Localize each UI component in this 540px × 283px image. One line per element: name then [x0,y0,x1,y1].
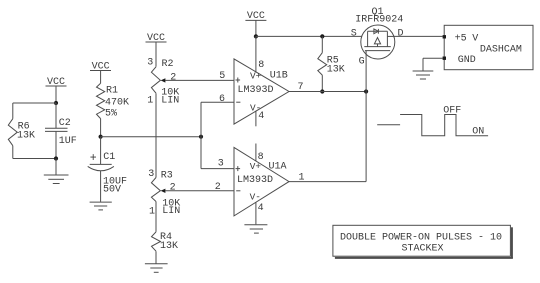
svg-text:D: D [398,28,404,39]
svg-text:V+: V+ [250,70,262,81]
ground at DASHCAM [413,71,434,79]
svg-text:+: + [90,152,97,165]
svg-text:U1B: U1B [270,70,288,81]
svg-text:2: 2 [170,72,176,83]
svg-text:LM393D: LM393D [238,85,274,96]
svg-text:1: 1 [149,206,155,217]
ground below U1A pin4 [244,225,267,233]
wire VCC rail to Q1 source [256,35,362,37]
resistor R5 [318,36,345,91]
svg-text:U1A: U1A [269,161,287,172]
ground below C1 [90,202,112,210]
power VCC net label (above U1B) [245,11,266,37]
svg-text:3: 3 [218,159,224,170]
svg-text:13K: 13K [327,65,345,76]
op-amp comparator U1B LM393D [219,36,304,126]
power VCC net label (above R1) [90,62,111,84]
svg-text:3: 3 [148,169,154,180]
wire rail to comparator inputs [101,136,201,138]
DASHCAM module box [443,25,533,69]
wire U1A output pin1 up to gate node [289,92,366,182]
svg-text:OFF: OFF [443,105,461,116]
svg-text:ON: ON [472,127,484,138]
svg-text:5%: 5% [105,108,117,119]
svg-text:V+: V+ [250,161,262,172]
transistor Q1 IRFR9024 (P-MOSFET) [351,7,404,67]
svg-text:+5: +5 [455,34,467,45]
svg-text:R2: R2 [162,59,174,70]
ground below C2 [44,159,69,184]
capacitor C2 [45,103,77,159]
svg-text:13K: 13K [160,241,178,252]
node R1/C1 [99,135,103,139]
svg-text:R1: R1 [106,86,118,97]
svg-text:IRFR9024: IRFR9024 [355,15,403,26]
svg-text:2: 2 [215,182,221,193]
wire [13,102,56,104]
svg-text:GND: GND [458,55,476,66]
node top of R6/C2 [54,101,58,105]
svg-text:2: 2 [170,182,176,193]
svg-text:3: 3 [147,58,153,69]
node rail junction [199,135,203,139]
wire [13,158,56,160]
svg-text:5: 5 [219,71,225,82]
node R5 top [320,34,324,38]
power VCC net label (left, above C2/R6) [46,77,67,103]
svg-text:LIN: LIN [162,206,180,217]
svg-text:50V: 50V [103,184,121,195]
wire R2 pin1 down through rail to R3 pin3 [155,93,157,177]
wire drain to DASHCAM [394,35,443,37]
svg-text:1: 1 [147,96,153,107]
wire wiper R3 to U1A pin2 [165,190,234,192]
resistor R6 [8,103,35,159]
potentiometer R2 10K LIN [147,58,179,107]
wire R3 pin1 to R4 [155,202,157,232]
wire gate of Q1 down to node [365,51,367,92]
wire U1B pin6 input [201,102,234,137]
wire U1A pin3 input from rail junction [201,137,234,169]
ground below R4 [145,264,168,273]
svg-text:STACKEX: STACKEX [401,243,443,254]
svg-text:G: G [359,56,365,67]
svg-text:1UF: 1UF [59,136,77,147]
svg-text:DOUBLE POWER-ON PULSES - 10: DOUBLE POWER-ON PULSES - 10 [340,233,502,244]
waveform annotation OFF/ON pulses [377,105,488,137]
power VCC net label (above R2) [146,33,167,67]
svg-text:LM393D: LM393D [237,175,273,186]
svg-text:S: S [351,28,357,39]
op-amp comparator U1A LM393D [215,144,305,225]
svg-text:C1: C1 [103,152,115,163]
node R5 bottom on gate line [320,89,324,93]
svg-text:DASHCAM: DASHCAM [480,44,522,55]
svg-text:4: 4 [258,111,264,122]
wire DASHCAM GND to ground [423,58,443,71]
wire U1B output pin7 to gate node [289,91,366,93]
resistor R4 [152,232,179,264]
svg-text:4: 4 [258,203,264,214]
capacitor C1 (polarized) [88,137,127,202]
node gate junction [364,89,368,93]
node VCC rail at U1B pin8 [254,34,258,38]
node bottom of R6/C2 [54,156,58,160]
svg-text:13K: 13K [17,130,35,141]
title box DOUBLE POWER-ON PULSES [333,225,513,258]
svg-text:LIN: LIN [161,96,179,107]
potentiometer R3 10K LIN [148,169,180,217]
svg-text:C2: C2 [59,118,71,129]
svg-text:6: 6 [219,94,225,105]
svg-text:470K: 470K [105,98,129,109]
resistor R1 [97,83,130,136]
wire wiper R2 to U1B pin5 [165,79,234,81]
svg-text:V-: V- [250,191,261,202]
svg-text:V: V [472,34,478,45]
svg-text:R3: R3 [161,170,173,181]
